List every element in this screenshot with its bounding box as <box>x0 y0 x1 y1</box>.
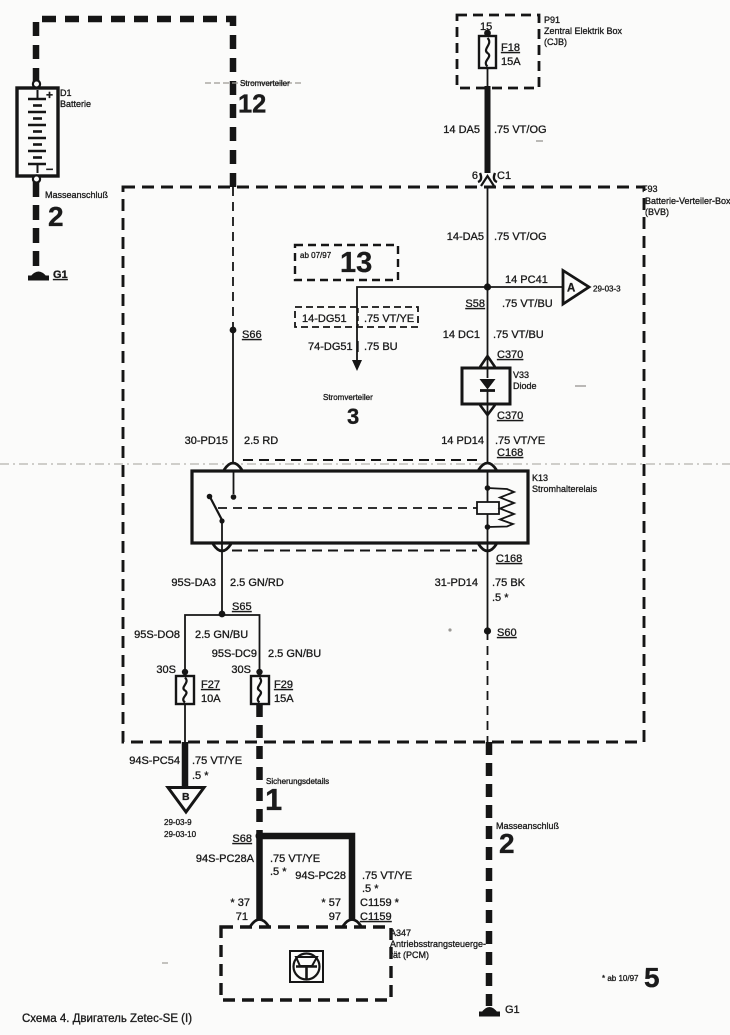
svg-text:S65: S65 <box>232 601 252 613</box>
label 95S-DO8 2.5 GN/BU <box>134 629 248 641</box>
svg-text:.5 *: .5 * <box>362 883 379 895</box>
svg-text:Masseanschluß: Masseanschluß <box>45 190 109 200</box>
svg-text:Схема 4. Двигатель Zetec-SE (I: Схема 4. Двигатель Zetec-SE (I) <box>22 1013 192 1025</box>
svg-text:14 DA5: 14 DA5 <box>443 124 480 136</box>
svg-text:14 PD14: 14 PD14 <box>441 435 484 447</box>
wire: S60 thin dashed to box edge <box>487 631 489 742</box>
wire: F29 thick dashed down to S68 <box>256 704 263 836</box>
wire: S65 split to two fuses <box>185 615 260 672</box>
wire: S58 to triangle A <box>488 286 564 288</box>
wire: fuse to C1 thick <box>487 68 489 173</box>
label 14 DA5 .75 VT/OG <box>443 124 546 136</box>
pin 30S right <box>231 664 251 676</box>
svg-text:.75 VT/YE: .75 VT/YE <box>192 755 242 767</box>
label 95S-DA3 2.5 GN/RD <box>171 577 283 589</box>
pins 57/97 <box>321 897 341 923</box>
box 14-DG51 .75 VT/YE <box>295 307 418 327</box>
svg-text:30S: 30S <box>231 664 251 676</box>
label Masseanschluss 2 (right) <box>496 821 560 859</box>
label 30-PD15 2.5 RD <box>185 435 279 447</box>
svg-text:.75 VT/YE: .75 VT/YE <box>495 435 545 447</box>
svg-text:14-DG51: 14-DG51 <box>302 313 347 325</box>
svg-text:.5 *: .5 * <box>192 770 209 782</box>
node S66 <box>230 327 262 341</box>
svg-text:3: 3 <box>347 404 359 429</box>
svg-text:71: 71 <box>236 911 248 923</box>
svg-text:D1: D1 <box>60 88 72 98</box>
svg-text:ab 07/97: ab 07/97 <box>300 251 332 260</box>
svg-text:94S-PC28: 94S-PC28 <box>295 870 346 882</box>
svg-text:10A: 10A <box>201 693 221 705</box>
svg-text:C1159: C1159 <box>360 911 392 923</box>
svg-text:1: 1 <box>265 782 282 817</box>
svg-text:Zentral Elektrik Box: Zentral Elektrik Box <box>544 26 623 36</box>
svg-text:5: 5 <box>644 962 660 993</box>
label 14-DA5 .75 VT/OG <box>447 231 547 243</box>
svg-text:G1: G1 <box>505 1004 520 1016</box>
svg-text:C1159 *: C1159 * <box>360 897 400 909</box>
svg-text:(BVB): (BVB) <box>645 207 669 217</box>
battery D1 <box>17 80 91 182</box>
diode V33 <box>462 368 537 404</box>
svg-text:V33: V33 <box>513 370 529 380</box>
svg-text:31-PD14: 31-PD14 <box>435 577 478 589</box>
scan specks <box>162 141 586 963</box>
node S68 <box>232 832 263 845</box>
wire: thick dashed battery top loop <box>36 19 233 187</box>
label 14 DC1 .75 VT/BU <box>443 329 544 341</box>
wire: diode to relay <box>487 404 489 462</box>
wire: S66 to relay <box>232 330 234 462</box>
svg-text:30-PD15: 30-PD15 <box>185 435 228 447</box>
svg-text:Stromhalterelais: Stromhalterelais <box>532 484 598 494</box>
connector C1159 <box>360 897 400 923</box>
svg-text:12: 12 <box>238 91 266 119</box>
box P91 Zentral Elektrik Box <box>457 15 623 88</box>
svg-text:A: A <box>567 283 575 295</box>
ground G1 (bottom right) <box>479 1004 520 1017</box>
label 94S-PC54 .75 VT/YE <box>129 755 242 782</box>
label 14 PD14 .75 VT/YE <box>441 435 545 447</box>
svg-text:2.5 GN/BU: 2.5 GN/BU <box>268 648 321 660</box>
svg-text:15A: 15A <box>274 693 294 705</box>
wire: S68 right branch thick <box>260 836 353 920</box>
label 94S-PC28A .75 VT/YE <box>196 853 320 878</box>
svg-text:rät (PCM): rät (PCM) <box>390 950 429 960</box>
box 13 (ab 07/97) <box>295 245 398 280</box>
svg-text:S60: S60 <box>497 627 517 639</box>
wire: F27 to box edge thin <box>184 704 186 742</box>
svg-text:C370: C370 <box>497 410 523 422</box>
node S60 <box>484 627 517 639</box>
fuse F27 10A <box>176 676 221 705</box>
label Sicherungsdetails 1 <box>265 777 329 817</box>
node fuse F27 top <box>182 669 188 675</box>
label 31-PD14 .75 BK <box>435 577 526 604</box>
label Stromverteiler 3 <box>323 393 373 429</box>
connector C168 lower <box>213 544 522 565</box>
svg-text:29-03-3: 29-03-3 <box>593 285 621 294</box>
svg-text:.75 VT/YE: .75 VT/YE <box>364 313 414 325</box>
svg-text:2.5 RD: 2.5 RD <box>244 435 278 447</box>
svg-text:K13: K13 <box>532 473 548 483</box>
connector C370 lower <box>480 405 523 422</box>
wire: thin dashed from top edge to S66 <box>232 187 234 329</box>
svg-text:G1: G1 <box>53 269 68 281</box>
fuse F18 15A <box>479 36 521 68</box>
svg-text:Batterie-Verteiler-Box: Batterie-Verteiler-Box <box>645 196 730 206</box>
svg-text:–: – <box>46 161 53 176</box>
svg-text:C370: C370 <box>497 349 523 361</box>
triangle B <box>164 788 204 840</box>
svg-text:* ab 10/97: * ab 10/97 <box>602 974 639 983</box>
svg-text:Antriebsstrangsteuerge-: Antriebsstrangsteuerge- <box>390 939 486 949</box>
svg-text:Diode: Diode <box>513 381 537 391</box>
svg-text:* 57: * 57 <box>321 897 341 909</box>
svg-text:F29: F29 <box>274 679 293 691</box>
svg-text:74-DG51: 74-DG51 <box>308 341 353 353</box>
ground G1 (left) <box>28 269 68 281</box>
node S65 <box>219 601 252 617</box>
wire: relay to S65 <box>221 543 223 614</box>
svg-text:97: 97 <box>329 911 341 923</box>
relay linkage dashed <box>218 507 477 509</box>
box F93 Batterie-Verteiler-Box <box>123 184 730 742</box>
wire: thick dashed battery to ground <box>33 182 40 269</box>
svg-text:2: 2 <box>48 201 64 232</box>
svg-text:95S-DC9: 95S-DC9 <box>212 648 257 660</box>
svg-text:30S: 30S <box>156 664 176 676</box>
svg-text:.5 *: .5 * <box>492 592 509 604</box>
svg-text:2: 2 <box>499 828 515 859</box>
svg-text:2.5 GN/RD: 2.5 GN/RD <box>230 577 284 589</box>
svg-text:C1: C1 <box>497 170 511 182</box>
svg-text:C168: C168 <box>496 553 522 565</box>
svg-text:P91: P91 <box>544 15 560 25</box>
label * ab 10/97 5 <box>602 962 660 993</box>
svg-text:F18: F18 <box>501 42 520 54</box>
svg-text:.75 BU: .75 BU <box>364 341 398 353</box>
node S58 <box>465 283 491 310</box>
triangle A <box>563 271 621 305</box>
svg-text:+: + <box>46 88 53 102</box>
svg-text:29-03-10: 29-03-10 <box>164 830 197 839</box>
connector C168 upper <box>224 447 523 470</box>
label Masseanschluss 2 (left) <box>45 190 109 232</box>
svg-text:S58: S58 <box>465 298 485 310</box>
relay K13 box <box>192 471 598 543</box>
wire: S58 down to diode <box>487 287 489 368</box>
svg-text:S68: S68 <box>232 833 252 845</box>
svg-text:(CJB): (CJB) <box>544 37 567 47</box>
connector C1 <box>472 170 511 186</box>
svg-text:B: B <box>182 791 190 803</box>
label 95S-DC9 2.5 GN/BU <box>212 648 321 660</box>
svg-text:95S-DO8: 95S-DO8 <box>134 629 180 641</box>
wire: C1 down to S58 <box>487 186 489 287</box>
fuse F29 15A <box>251 676 294 705</box>
svg-text:6: 6 <box>472 170 478 182</box>
pin 15 <box>480 21 492 33</box>
svg-text:Stromverteiler: Stromverteiler <box>240 79 290 88</box>
svg-text:.75 VT/BU: .75 VT/BU <box>493 329 544 341</box>
svg-text:Batterie: Batterie <box>60 99 91 109</box>
caption <box>22 1013 192 1025</box>
scan artifact faint line across page <box>0 463 730 465</box>
svg-text:.75 VT/YE: .75 VT/YE <box>270 853 320 865</box>
wire: thick dashed S60 continuation to ground G1 (bottom right) <box>486 742 493 1006</box>
relay coil <box>477 471 514 543</box>
wire: S68 down to PCM thick <box>256 836 263 920</box>
wire: S58 branch left and arrow down <box>352 287 488 371</box>
svg-text:.75 VT/YE: .75 VT/YE <box>362 870 412 882</box>
svg-text:94S-PC54: 94S-PC54 <box>129 755 180 767</box>
svg-text:2.5 GN/BU: 2.5 GN/BU <box>195 629 248 641</box>
svg-text:.75 VT/BU: .75 VT/BU <box>502 298 553 310</box>
svg-text:94S-PC28A: 94S-PC28A <box>196 853 255 865</box>
node fuse F29 top <box>256 669 262 675</box>
node: fuse top terminal <box>484 30 491 37</box>
svg-text:F27: F27 <box>201 679 220 691</box>
pins 37/71 <box>230 897 250 923</box>
svg-text:Stromverteiler: Stromverteiler <box>323 393 373 402</box>
wire: relay to S60 <box>487 543 489 631</box>
svg-text:A347: A347 <box>390 928 411 938</box>
label 14 PC41 .75 VT/BU <box>502 274 553 310</box>
svg-text:29-03-9: 29-03-9 <box>164 818 192 827</box>
svg-text:.5 *: .5 * <box>270 866 287 878</box>
connector chevrons into PCM <box>251 920 362 927</box>
pin 30S left <box>156 664 176 676</box>
label 74-DG51 .75 BU <box>308 341 398 353</box>
relay switch contact <box>207 471 237 543</box>
svg-text:* 37: * 37 <box>230 897 250 909</box>
svg-text:S66: S66 <box>242 329 262 341</box>
svg-text:14 PC41: 14 PC41 <box>505 274 548 286</box>
svg-text:14 DC1: 14 DC1 <box>443 329 480 341</box>
svg-text:.75 BK: .75 BK <box>492 577 526 589</box>
label Stromverteiler 12 <box>205 79 302 119</box>
svg-text:13: 13 <box>340 247 372 279</box>
box A347 PCM <box>221 927 486 1000</box>
svg-text:14-DA5: 14-DA5 <box>447 231 484 243</box>
svg-text:.75 VT/OG: .75 VT/OG <box>494 231 547 243</box>
svg-text:15A: 15A <box>501 56 521 68</box>
label 94S-PC28 .75 VT/YE <box>295 870 412 895</box>
svg-text:95S-DA3: 95S-DA3 <box>171 577 216 589</box>
svg-text:F93: F93 <box>642 184 658 194</box>
svg-text:C168: C168 <box>497 447 523 459</box>
connector C370 upper <box>480 349 523 367</box>
svg-text:.75 VT/OG: .75 VT/OG <box>494 124 547 136</box>
PCM icon <box>290 951 323 982</box>
wire: F27 thick to triangle B <box>182 742 189 786</box>
